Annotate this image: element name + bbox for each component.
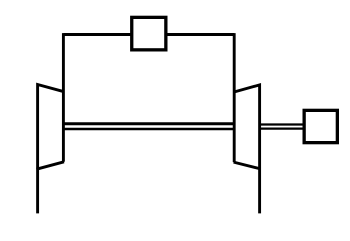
compressor: bottom slant xyxy=(37,162,65,169)
shaft lower line (turbine to load) xyxy=(260,127,305,129)
wire: top duct left riser / compressor discharge edge xyxy=(62,33,65,162)
load (right box) xyxy=(304,110,337,142)
wire: top duct horizontal (compressor outlet to turbine inlet via combustor) xyxy=(63,33,234,36)
wire: top duct right riser / turbine inlet edge xyxy=(233,33,236,162)
shaft upper line (turbine to load) xyxy=(260,123,305,125)
turbine: bottom slant xyxy=(234,162,261,169)
compressor: outer edge with inlet line down and top slant xyxy=(38,85,64,214)
shaft upper line (compressor to turbine) xyxy=(63,122,234,125)
turbine: outer edge with exhaust line down and top slant xyxy=(234,85,260,214)
shaft lower line (compressor to turbine) xyxy=(63,128,234,131)
combustor (top box) xyxy=(132,17,166,50)
